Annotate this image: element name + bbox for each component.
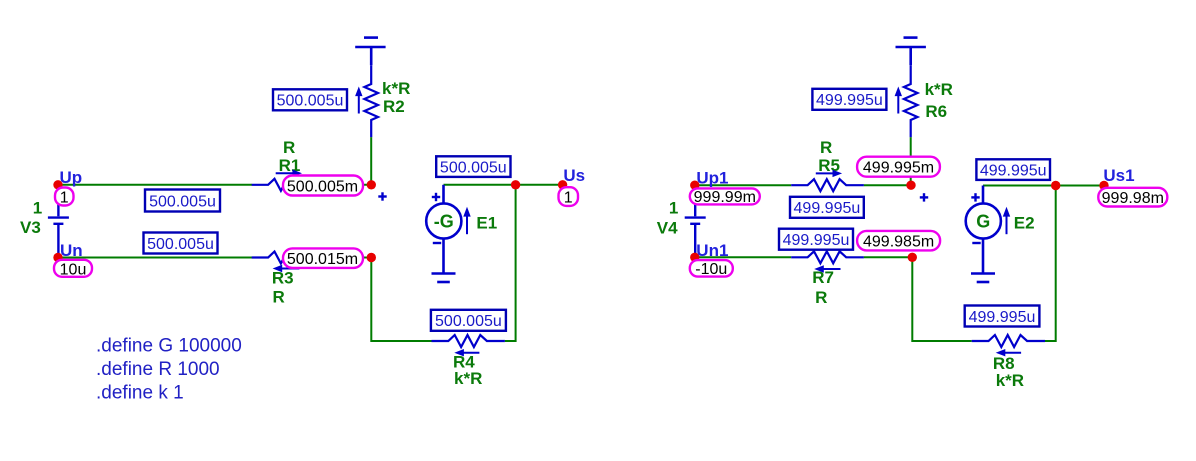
measurement box 499.995m (R5 node): [857, 157, 940, 177]
svg-text:.define G 100000: .define G 100000: [96, 336, 242, 357]
measurement box 10u (Un): [54, 260, 92, 279]
svg-text:E2: E2: [1014, 213, 1035, 232]
current arrow R5 (right): [816, 170, 842, 177]
svg-text:R: R: [273, 288, 285, 307]
svg-text:Un: Un: [60, 241, 83, 260]
svg-text:Up: Up: [60, 168, 83, 187]
ground GND1 (inverted, top of R2): [355, 38, 385, 66]
current arrow R4 (left): [454, 349, 479, 356]
node R7 junction: [908, 253, 917, 262]
svg-text:500.005u: 500.005u: [435, 313, 502, 330]
E1 current arrow: [463, 207, 470, 234]
svg-text:1: 1: [60, 190, 69, 207]
svg-text:499.995u: 499.995u: [816, 92, 883, 109]
svg-text:Up1: Up1: [696, 168, 728, 187]
resistor R6 k*R vertical: [904, 65, 918, 137]
svg-text:500.005u: 500.005u: [277, 93, 344, 110]
svg-text:.define R 1000: .define R 1000: [96, 359, 220, 380]
svg-text:499.995u: 499.995u: [783, 232, 850, 249]
svg-text:G: G: [976, 211, 990, 231]
value box 499.995u (R8): [965, 306, 1040, 327]
value box 500.005u (E1 output): [436, 156, 510, 177]
svg-text:k*R: k*R: [382, 79, 410, 98]
svg-text:Us1: Us1: [1103, 166, 1134, 185]
svg-text:1: 1: [33, 198, 42, 217]
measurement box 999.98m (Us1): [1098, 188, 1167, 207]
svg-text:499.995m: 499.995m: [863, 160, 934, 177]
ground GND2 (inverted, top of R6): [896, 38, 926, 66]
svg-text:R7: R7: [812, 268, 834, 287]
wire R7 node down and to R8: [912, 257, 971, 341]
resistor R2 k*R vertical: [364, 65, 378, 137]
svg-text:k*R: k*R: [454, 369, 482, 388]
node Un: [53, 253, 62, 262]
E2 minus marker: [972, 242, 980, 244]
svg-text:500.015m: 500.015m: [287, 251, 358, 268]
value box 500.005u (Un wire): [144, 233, 218, 254]
svg-text:499.985m: 499.985m: [863, 233, 934, 250]
svg-text:Us: Us: [563, 166, 585, 185]
svg-text:500.005u: 500.005u: [147, 236, 214, 253]
resistor R8 horizontal: [972, 335, 1045, 347]
svg-text:R3: R3: [272, 269, 294, 288]
measurement box 500.005m (R1): [283, 176, 363, 196]
svg-text:R: R: [815, 288, 827, 307]
value box 499.995u (R7): [779, 229, 853, 250]
wire R3 node down and to R4: [371, 258, 431, 342]
plus marker near R1 node (E1 input +): [378, 192, 386, 200]
value box 499.995u (E2 output): [976, 159, 1050, 180]
wire Un to R3: [58, 257, 252, 259]
current arrow R2: [355, 87, 362, 114]
resistor R5 horizontal: [791, 179, 864, 191]
svg-text:-G: -G: [434, 211, 454, 231]
resistor R4 horizontal: [432, 335, 505, 347]
ground below E1: [432, 274, 456, 283]
resistor R3 horizontal: [252, 252, 325, 264]
svg-text:500.005m: 500.005m: [287, 178, 358, 195]
svg-text:R: R: [820, 138, 832, 157]
measurement box -10u (Un1): [690, 260, 733, 278]
node Us: [558, 180, 567, 189]
resistor R7 horizontal: [791, 251, 864, 263]
dependent source E2: [966, 186, 1001, 274]
svg-text:1: 1: [669, 198, 678, 217]
wire R4 to right riser and up to junction: [505, 185, 516, 341]
svg-text:999.98m: 999.98m: [1102, 190, 1164, 207]
current arrow R8 (left): [996, 349, 1021, 356]
value box 499.995u (R5): [790, 197, 864, 218]
E1 minus marker: [433, 242, 441, 244]
battery V4: [685, 187, 706, 255]
svg-text:499.995u: 499.995u: [794, 200, 861, 217]
current arrow R7 (left): [814, 265, 840, 272]
svg-text:500.005u: 500.005u: [149, 193, 216, 210]
value box 499.995u (R6 current): [812, 89, 886, 110]
wire R7 to node: [864, 256, 912, 258]
svg-text:500.005u: 500.005u: [440, 160, 507, 177]
node R5-R6 junction: [906, 181, 915, 190]
svg-text:10u: 10u: [60, 261, 87, 278]
node Up1: [690, 181, 699, 190]
ground below E2: [971, 274, 995, 283]
node E2 output junction: [1051, 181, 1060, 190]
svg-text:1: 1: [564, 190, 573, 207]
E2 plus marker: [971, 193, 979, 201]
battery V3: [48, 187, 69, 255]
wire R2 to node: [370, 137, 372, 185]
wire Un1 to R7: [695, 256, 791, 258]
svg-text:-10u: -10u: [695, 261, 727, 278]
svg-text:R2: R2: [383, 97, 405, 116]
E2 current arrow: [1003, 207, 1010, 234]
svg-text:999.99m: 999.99m: [694, 189, 756, 206]
svg-text:Un1: Un1: [696, 241, 728, 260]
node Us1: [1099, 181, 1108, 190]
node E1 output junction: [511, 180, 520, 189]
svg-text:R: R: [283, 138, 295, 157]
measurement box 1 (Us): [559, 187, 579, 206]
wire R3 to node: [324, 257, 371, 259]
svg-text:R6: R6: [925, 102, 947, 121]
svg-text:499.995u: 499.995u: [969, 309, 1036, 326]
wire E2 output row: [983, 185, 1104, 187]
svg-text:E1: E1: [476, 213, 497, 232]
current arrow R1 (right): [276, 170, 302, 177]
wire R5 to node: [864, 184, 911, 186]
svg-text:V3: V3: [20, 218, 41, 237]
E1 plus marker: [432, 193, 440, 201]
value box 500.005u (Up wire): [145, 190, 220, 212]
measurement box 1 (Up): [55, 188, 74, 207]
svg-text:k*R: k*R: [996, 371, 1024, 390]
measurement box 500.015m (R3): [283, 248, 363, 268]
wire R1 to node: [324, 184, 371, 186]
resistor R1 horizontal: [252, 179, 325, 191]
svg-text:499.995u: 499.995u: [980, 163, 1047, 180]
wire E1 output row: [444, 184, 563, 186]
measurement box 999.99m (Up1): [690, 188, 760, 206]
wire Up1 to R5: [695, 184, 791, 186]
svg-text:V4: V4: [657, 219, 678, 238]
wire Up to R1: [58, 184, 252, 186]
measurement box 499.985m (R7 node): [857, 231, 940, 251]
plus marker near R5 node (E2 input +): [920, 193, 928, 201]
dependent source E1: [426, 185, 461, 274]
value box 500.005u (R2 current): [273, 89, 347, 110]
current arrow R3 (left): [273, 265, 300, 272]
node Up: [53, 180, 62, 189]
current arrow R6: [895, 87, 902, 114]
svg-text:.define k 1: .define k 1: [96, 383, 184, 404]
wire R8 to right riser and up to junction: [1045, 186, 1056, 342]
wire R6 to node: [910, 137, 912, 185]
node R3 junction: [367, 253, 376, 262]
value box 500.005u (R4): [431, 310, 506, 331]
svg-text:k*R: k*R: [925, 80, 953, 99]
node R1-R2 junction: [367, 180, 376, 189]
node Un1: [690, 253, 699, 262]
